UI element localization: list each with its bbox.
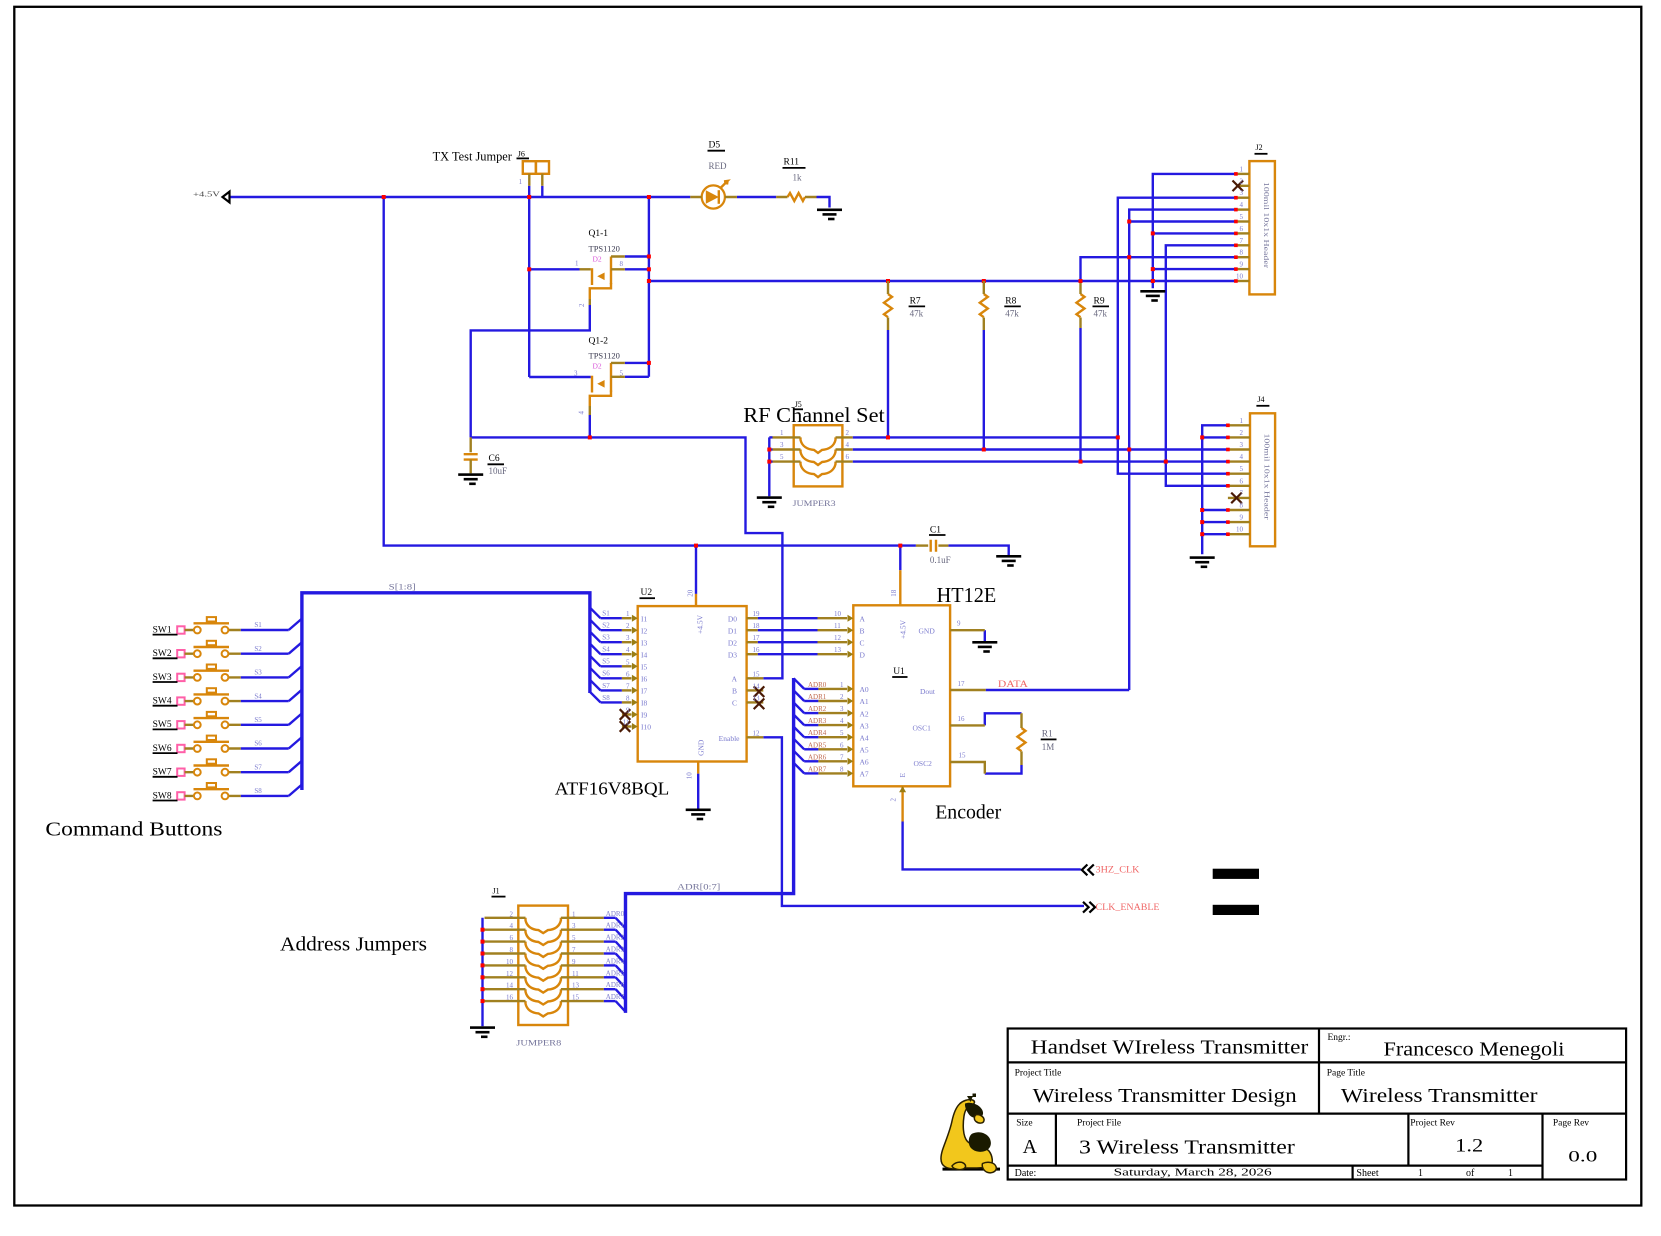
svg-text:S8: S8 [254,787,262,795]
J4 pin 6 connection point [1226,484,1230,488]
ground symbol (RF jumpers) [757,496,782,508]
svg-text:Sheet: Sheet [1356,1168,1378,1179]
svg-text:6: 6 [1240,225,1244,233]
svg-text:1: 1 [572,910,576,918]
svg-text:2: 2 [1240,429,1244,437]
svg-text:ADR4: ADR4 [606,957,625,965]
J5 row 1 pin stubs [773,436,853,438]
resistor R8 47k [980,294,988,317]
IC U2 ATF16V8BQL body [638,606,747,761]
svg-text:Command Buttons: Command Buttons [45,819,222,841]
bus ADR[0:7] [626,678,794,1013]
svg-text:I6: I6 [641,675,647,684]
svg-text:3: 3 [780,441,784,449]
no-connect X at J4 pin7 [1231,493,1242,504]
U2 pin 2 (I2) stub [622,629,632,631]
wire: switch S5 net [241,724,289,726]
svg-text:1: 1 [780,429,784,437]
J2 pin 8 stub [1236,256,1250,258]
svg-text:10uF: 10uF [489,466,508,476]
svg-text:D: D [860,650,866,659]
U2 pin 13 (C) stub [747,701,764,703]
svg-text:+4.5V: +4.5V [899,619,908,639]
junction: J4 pin2 tap [1200,435,1204,439]
U1 pin 15 (OSC2) stub [950,762,985,774]
U2 pin 19 (D0) stub [747,617,758,619]
wire: S6 to U2 I6 [601,677,622,679]
U2 pin 14 (B) stub [747,689,764,691]
wire: J1 ADR5 stub wire [604,976,616,978]
wire: U2 D2 to U1 C [758,641,818,643]
U1 pin 6 (A5) stub [818,748,847,750]
svg-text:OSC2: OSC2 [914,759,933,768]
svg-text:13: 13 [753,694,761,702]
svg-text:1: 1 [1240,165,1244,173]
net channel1: RF row1 to J2 pin3 / J4 pin5 [853,198,1236,474]
black bar marker upper [1213,869,1259,879]
svg-text:Date:: Date: [1015,1168,1037,1179]
junction: J4 pin10 tap [1200,532,1204,536]
svg-text:ADR5: ADR5 [606,969,625,977]
junction: Q1-1 drain mid [647,267,651,271]
off-page port chevrons CLK_ENABLE [1083,902,1095,913]
svg-text:S1: S1 [602,610,610,618]
J1 row 7 pin stubs [485,988,604,990]
U1 pin 11 (B) stub [818,629,848,631]
wire: S7 to U2 I7 [601,689,622,691]
U1 pin 4 (A3) stub [818,724,847,726]
svg-text:3: 3 [574,370,578,378]
underline J1 [492,896,506,898]
U2 pin 20 (+4.5V) stub [695,594,697,606]
svg-text:RED: RED [709,161,728,171]
svg-text:2: 2 [890,798,898,802]
bus entry S7 (left) [289,761,302,772]
svg-text:12: 12 [834,634,842,642]
svg-text:A0: A0 [860,685,869,694]
svg-text:1.2: 1.2 [1455,1136,1483,1157]
junction: J1 ground pin 8 [481,952,485,956]
svg-text:J2: J2 [1256,143,1263,152]
wire: U1 pin18 supply drop [899,546,901,571]
svg-text:D2: D2 [728,638,737,647]
svg-text:R9: R9 [1094,297,1105,307]
svg-text:ADR0: ADR0 [808,681,827,689]
svg-text:4: 4 [1240,453,1244,461]
underline R7 [909,305,926,307]
svg-text:ADR5: ADR5 [808,741,827,749]
junction: rail / drain vertical [647,195,651,199]
wire: U2 D1 to U1 B [758,629,818,631]
svg-text:2: 2 [578,303,586,307]
svg-text:DATA: DATA [998,680,1028,690]
underline J4 [1256,405,1269,407]
svg-text:S4: S4 [602,646,610,654]
net channel2: J2 pin4 vertical to DATA line [1129,210,1236,690]
LED D5 (RED) [702,181,728,209]
underline SW7 [153,776,178,778]
ground symbol (C6) [458,473,483,485]
wire: switch S8 net [241,795,289,797]
junction: R7 bottom on channel1 [886,435,890,439]
jumper block J5 (RF Channel Set) body [794,425,843,486]
svg-text:S3: S3 [254,669,262,677]
svg-text:14: 14 [753,682,761,690]
svg-text:A7: A7 [860,770,869,779]
svg-text:I10: I10 [641,723,651,732]
svg-text:ADR7: ADR7 [606,993,625,1001]
J2 pin 4 stub [1236,208,1250,210]
underline R11 [783,167,806,169]
svg-text:Wireless Transmitter: Wireless Transmitter [1341,1086,1538,1107]
svg-text:3: 3 [626,634,630,642]
svg-text:19: 19 [753,610,761,618]
U1 pin 3 (A2) stub [818,712,847,714]
J1 row 6 pin stubs [485,976,604,978]
junction: drain rail start [647,279,651,283]
wire: Q1-2 source drop [589,415,591,437]
svg-text:R11: R11 [784,158,800,168]
svg-text:C: C [860,638,865,647]
J1 row 2 pin stubs [485,929,604,931]
wire: J2 pin9 ground link [1153,268,1236,270]
svg-text:R1: R1 [1042,730,1053,740]
svg-text:47k: 47k [1005,309,1019,319]
wire: S8 to U2 I8 [601,701,622,703]
svg-text:16: 16 [753,646,761,654]
junction: R7 top on rail [886,279,890,283]
wire: J1 ADR6 stub wire [604,988,616,990]
net channel2: RF row2 to J4 pin3 [853,448,1228,450]
bus entry ADR4 (U1 side) [794,727,805,738]
svg-text:10: 10 [1236,273,1244,281]
wire: Q1-2 drain lead top [625,362,649,364]
junction: R8 bottom on channel2 [982,448,986,452]
U2 pin 11 (I10) stub [622,725,632,727]
svg-text:Dout: Dout [920,687,936,696]
svg-text:9: 9 [626,707,630,715]
underline SW1 [153,634,178,636]
wire: TX jumper pin1 drop / Q1 gate feed vertical [528,186,530,377]
wire: OSC1 loop to R1 top [985,713,1022,725]
U2 pin 4 (I4) stub [622,653,632,655]
svg-text:I5: I5 [641,663,647,672]
svg-text:ATF16V8BQL: ATF16V8BQL [555,779,670,799]
svg-text:10: 10 [1236,526,1244,534]
svg-text:2: 2 [510,910,514,918]
resistor R1 1M body [1018,728,1026,751]
junction: channel2 vertical tap [1127,448,1131,452]
svg-text:11: 11 [623,719,630,727]
svg-text:A5: A5 [860,746,869,755]
J1 jumper element row 2 [526,930,561,945]
junction: R8 top on rail [982,279,986,283]
net channel2: J2 pin8 row to R9 top corner [1081,257,1236,283]
J1 jumper element row 7 [526,989,561,1004]
U1 pin 17 (Dout) stub [950,689,986,691]
underline SW2 [153,657,178,659]
bus S[1:8] [302,593,590,790]
wire: J1 ADR3 stub wire [604,952,616,954]
svg-text:ADR0: ADR0 [606,910,625,918]
junction: channel1 corner [1116,435,1120,439]
svg-text:D0: D0 [728,614,737,623]
U2 pin 9 (I9) stub [622,713,632,715]
jumper J6 (TX test jumper) [523,161,549,174]
svg-text:3 Wireless Transmitter: 3 Wireless Transmitter [1079,1138,1295,1159]
underline U2 [640,597,656,599]
net channel3: J2 pin7 vertical to J4 pin6 [1166,245,1236,485]
U2 pin 7 (I7) stub [622,689,632,691]
svg-text:of: of [1466,1168,1475,1179]
J1 row 5 pin stubs [485,964,604,966]
push-button SW4 [177,688,241,705]
J4 pin 2 connection point [1226,436,1230,440]
wire: switch S6 net [241,747,289,749]
svg-text:D1: D1 [728,626,737,635]
J4 pin 1 connection point [1226,424,1230,428]
wire: J4 pin2 ground link [1202,436,1228,438]
svg-text:Page Rev: Page Rev [1553,1119,1589,1129]
svg-text:4: 4 [1240,201,1244,209]
svg-text:1: 1 [1240,417,1244,425]
svg-text:Project Rev: Project Rev [1410,1119,1455,1129]
svg-text:Encoder: Encoder [935,802,1001,824]
svg-text:2: 2 [1240,177,1244,185]
underline D5 [708,150,726,152]
svg-text:S2: S2 [254,645,262,653]
svg-text:8: 8 [620,260,624,268]
svg-text:S[1:8]: S[1:8] [389,582,416,592]
underline C1 [929,534,946,536]
bus entry ADR3 (J1 side) [616,954,626,965]
J5 row 3 pin stubs [773,460,853,462]
junction: U2 supply tap [694,544,698,548]
J4 pin 5 connection point [1226,472,1230,476]
svg-text:Wireless Transmitter Design: Wireless Transmitter Design [1033,1086,1297,1107]
resistor R11 1k body [788,193,805,201]
no-connect X at U2 B [754,686,765,697]
push-button SW6 [177,736,241,753]
svg-text:Project Title: Project Title [1015,1069,1062,1079]
svg-text:ADR2: ADR2 [808,705,827,713]
wire: J1 ADR2 stub wire [604,940,616,942]
svg-text:I7: I7 [641,687,647,696]
wire: S2 to U2 I2 [601,629,622,631]
J2 pin 9 stub [1236,268,1250,270]
jumper J6 pin stubs [529,174,542,186]
svg-text:Engr.:: Engr.: [1328,1033,1351,1043]
svg-text:13: 13 [572,982,580,990]
bus entry ADR7 (U1 side) [794,763,805,774]
svg-text:D3: D3 [728,650,737,659]
J1 jumper element row 1 [526,918,561,933]
J1 jumper element row 4 [526,954,561,969]
wire: U2 D3 to U1 D [758,653,818,655]
junction: Q1-2 drain top [647,361,651,365]
bus entry ADR0 (U1 side) [794,678,805,689]
svg-text:7: 7 [572,946,576,954]
off-page port chevrons 3HZ_CLK [1082,865,1094,876]
svg-text:ADR6: ADR6 [606,981,625,989]
J4 pin 8 stub [1228,509,1250,511]
ground symbol (U2) [686,809,711,821]
svg-text:7: 7 [840,753,844,761]
wire: TE pin drop to 3HZ_CLK port [903,822,1081,870]
junction: rail / TX jumper pin1 [527,195,531,199]
svg-text:5: 5 [626,658,630,666]
resistor R7 lead stubs [887,281,889,330]
J5 jumper element row 1 [801,437,836,453]
svg-text:6: 6 [510,934,514,942]
svg-text:1: 1 [1508,1168,1513,1179]
bus entry ADR7 (J1 side) [616,1001,626,1012]
U1 pin 9 (GND) stub [950,629,985,631]
svg-text:6: 6 [1240,477,1244,485]
U1 pin 2 (A1) stub [818,700,847,702]
push-button SW3 [177,665,241,682]
junction: Q1-1 gate tap [527,267,531,271]
black bar marker lower [1213,905,1259,915]
svg-text:A1: A1 [860,697,869,706]
svg-text:+4.5V: +4.5V [193,191,220,199]
wire: J1 ADR7 stub wire [604,1000,616,1002]
J2 pin 9 connection point [1234,267,1238,271]
svg-text:Page Title: Page Title [1327,1069,1365,1079]
J2 pin 6 stub [1236,232,1250,234]
U2 pin 6 (I6) stub [622,677,632,679]
bus entry S2 (left) [289,642,302,653]
wire: J1 ground collector vertical [481,918,483,1027]
wire: J4 pin10 ground link [1202,533,1228,535]
svg-text:S1: S1 [254,621,262,629]
header J4 100mil 10x1 body [1250,413,1275,546]
junction: J1 ground pin 12 [481,975,485,979]
svg-text:1: 1 [840,681,844,689]
svg-text:I9: I9 [641,711,647,720]
J5 jumper element row 3 [801,462,836,478]
svg-text:5: 5 [572,934,576,942]
U1 pin 2 (TE) stub [901,786,903,821]
wire: Q1-1 gate wire [529,268,579,270]
J4 pin 8 connection point [1226,508,1230,512]
svg-text:1: 1 [626,610,630,618]
bus entry ADR1 (U1 side) [794,690,805,701]
J4 pin 7 stub [1228,497,1250,499]
svg-text:1: 1 [575,260,579,268]
svg-text:S5: S5 [602,658,610,666]
svg-text:JUMPER8: JUMPER8 [516,1038,561,1048]
J2 pin 6 connection point [1234,232,1238,236]
svg-text:47k: 47k [1094,309,1108,319]
U2 pin 18 (D1) stub [747,629,758,631]
resistor R9 lead stubs [1079,283,1081,328]
svg-text:4: 4 [840,717,844,725]
svg-text:2: 2 [626,622,630,630]
svg-text:17: 17 [958,680,966,688]
bus entry ADR3 (U1 side) [794,715,805,726]
J1 jumper element row 6 [526,977,561,992]
junction: RF row2 ground tap [767,448,771,452]
junction: J1 ground pin 6 [481,940,485,944]
U2 pin 8 (I8) stub [622,701,632,703]
bus entry S6 (left) [289,737,302,748]
junction: Q1-2 source / C6 rail [588,435,592,439]
ground symbol (U1 GND pin) [972,641,997,653]
svg-text:J4: J4 [1257,395,1264,404]
wire: switch S3 net [241,676,289,678]
junction: J2 pin6 tap [1151,231,1155,235]
J2 pin 3 stub [1236,196,1250,198]
svg-text:I2: I2 [641,626,647,635]
bus entry ADR5 (U1 side) [794,739,805,750]
U1 pin 5 (A4) stub [818,736,847,738]
J4 pin 3 stub [1228,448,1250,450]
svg-text:5: 5 [1240,465,1244,473]
U2 pin 5 (I5) stub [622,665,632,667]
svg-text:I3: I3 [641,638,647,647]
junction: J1 ground pin 16 [481,999,485,1003]
wire: RF row1 left link [769,436,772,438]
no-connect X at U2 C [754,699,765,710]
svg-text:ADR1: ADR1 [808,693,827,701]
svg-text:R8: R8 [1005,297,1016,307]
bus entry S8 (left) [289,785,302,796]
wire: ADR1 to U1 A1 [804,700,818,702]
wire: RF row2 left link [769,448,772,450]
resistor R8 lead stubs [983,281,985,330]
J4 pin 5 stub [1228,473,1250,475]
underline SW8 [153,800,178,802]
svg-text:0.1uF: 0.1uF [930,555,951,565]
svg-text:Project File: Project File [1077,1119,1121,1129]
bus entry S4 (left) [289,690,302,701]
svg-text:20: 20 [687,589,695,597]
svg-text:2: 2 [840,693,844,701]
junction: J2 pin5 tap [1127,220,1131,224]
wire: drain rail to J2 pin 10 [649,280,1236,282]
svg-text:7: 7 [626,682,630,690]
U2 pin 10 (GND) stub [697,762,699,774]
J4 pin 10 connection point [1226,532,1230,536]
svg-text:S6: S6 [254,740,262,748]
wire: S5 to U2 I5 [601,665,622,667]
svg-text:ADR2: ADR2 [606,934,625,942]
wire: U2 pin10 ground drop [697,774,699,809]
wire: switch S1 net [241,629,289,631]
svg-text:Francesco Menegoli: Francesco Menegoli [1384,1040,1566,1061]
svg-text:1k: 1k [793,173,803,183]
J5 jumper element row 2 [801,450,836,466]
bus entry S2 (U2 side) [590,620,601,631]
bus entry S7 (U2 side) [590,680,601,691]
wire: Q1-2 drain lead mid [625,376,649,378]
svg-text:8: 8 [510,946,514,954]
bus entry S6 (U2 side) [590,668,601,679]
resistor R9 47k [1077,294,1085,317]
bus entry S5 (left) [289,713,302,724]
push-button SW8 [177,783,241,800]
J1 jumper element row 5 [526,965,561,980]
bus entry ADR1 (J1 side) [616,930,626,941]
wire: ADR6 to U1 A6 [804,760,818,762]
bus entry ADR6 (J1 side) [616,989,626,1000]
svg-text:3: 3 [840,705,844,713]
svg-text:11: 11 [834,622,841,630]
wire: J1 ADR1 stub wire [604,929,616,931]
svg-text:A6: A6 [860,758,869,767]
ground symbol (J2) [1140,290,1165,302]
